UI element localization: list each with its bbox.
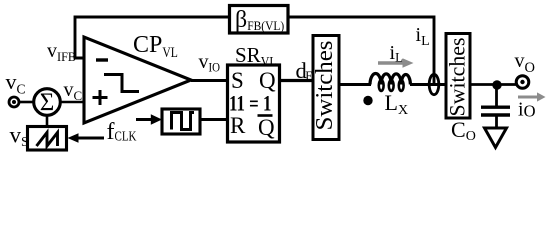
svg-text:R: R: [230, 113, 246, 138]
svg-text:iL: iL: [416, 24, 430, 49]
wire summer to sawtooth block: [46, 116, 49, 128]
svg-text:Σ: Σ: [40, 89, 55, 116]
svg-text:iL: iL: [390, 42, 404, 65]
feedback tap wire up to top, node iL: [288, 17, 434, 85]
svg-text:vS: vS: [10, 123, 29, 151]
wire vC to summer: [20, 101, 35, 104]
junction node: [492, 80, 501, 89]
switches block 1: [312, 36, 339, 140]
current iO arrow (gray): [518, 92, 546, 101]
svg-text:vIFB: vIFB: [47, 40, 76, 64]
pulse generator block: [162, 109, 200, 134]
svg-text:dE: dE: [296, 58, 314, 83]
summer SIGMA: [34, 89, 61, 116]
svg-text:vC: vC: [64, 79, 83, 103]
wire switches2 to vO terminal: [470, 83, 517, 86]
wire comparator output to S input, node vIO: [191, 79, 228, 82]
capacitor CO: [481, 85, 510, 130]
svg-text:iO: iO: [518, 99, 536, 121]
arrow fCLK into sawtooth block: [68, 133, 105, 142]
svg-text:CO: CO: [451, 117, 476, 144]
arrow fCLK into pulse block: [136, 114, 162, 125]
feedback gain block BFB(VL): [230, 6, 289, 34]
sawtooth generator block: [28, 127, 67, 151]
svg-text:CPVL: CPVL: [133, 32, 178, 61]
svg-text:vIO: vIO: [199, 51, 221, 75]
feedback wire vIFB down to comparator - input: [75, 17, 230, 58]
inductor LX: [370, 73, 410, 90]
svg-text:vO: vO: [515, 50, 535, 76]
node vO terminal: [516, 76, 529, 89]
svg-text:fCLK: fCLK: [107, 119, 137, 145]
wire summer to comparator + input, node vC': [61, 101, 85, 104]
svg-text:Switches: Switches: [312, 41, 338, 131]
svg-text:SRVL: SRVL: [235, 43, 277, 70]
svg-text:vC: vC: [6, 69, 26, 97]
current sense ellipse: [429, 74, 439, 94]
switches block 2: [445, 34, 471, 119]
wire switches1 to inductor: [339, 83, 371, 86]
svg-text:Q: Q: [259, 68, 276, 93]
op-amp comparator CPVL: [84, 37, 191, 123]
svg-text:Switches: Switches: [445, 38, 470, 117]
node dot: [363, 96, 372, 105]
svg-text:Q: Q: [258, 115, 275, 140]
svg-text:LX: LX: [385, 90, 409, 118]
current iL arrow (gray): [378, 58, 414, 68]
svg-text:S: S: [231, 68, 244, 93]
wire Q output to switches, node dE: [280, 79, 314, 82]
SR latch U1: [228, 65, 280, 142]
node vC terminal: [9, 97, 19, 107]
ground: [485, 128, 507, 148]
wire inductor to switches2: [410, 83, 446, 86]
wire pulse block to R input: [200, 118, 228, 121]
